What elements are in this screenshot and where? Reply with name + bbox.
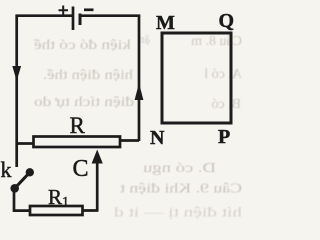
svg-text:Câu 8. m: Câu 8. m	[191, 34, 242, 49]
svg-text:kiện đó có thể: kiện đó có thể	[33, 38, 131, 53]
slider arrowhead	[92, 150, 103, 164]
wire from R1 left to switch	[14, 188, 31, 211]
battery plus sign	[59, 6, 69, 16]
rectangle frame MNPQ	[162, 33, 231, 123]
resistor R1 box	[30, 206, 83, 215]
svg-text:Q: Q	[219, 10, 235, 32]
svg-text:hiện điện thể.: hiện điện thể.	[43, 68, 133, 83]
wire from slider down to R1 right end	[82, 209, 98, 212]
svg-text:R: R	[48, 185, 62, 209]
svg-text:B. có: B. có	[211, 97, 241, 112]
switch k: arm bar	[15, 172, 30, 188]
svg-text:hít điện tị — it d: hít điện tị — it d	[114, 206, 242, 221]
battery negative plate (short)	[79, 14, 82, 26]
svg-text:ận: ận	[139, 32, 150, 46]
switch k: pivot dot	[10, 184, 19, 193]
svg-text:A. có l: A. có l	[204, 67, 242, 82]
svg-text:P: P	[218, 126, 230, 148]
switch k: open contact dot	[26, 168, 34, 176]
battery positive plate (long)	[72, 7, 75, 31]
svg-text:điện tích tự do: điện tích tự do	[34, 95, 134, 110]
slider wire C (vertical with up arrow to R)	[96, 162, 99, 211]
rheostat R box	[34, 137, 121, 148]
svg-text:C: C	[73, 156, 89, 182]
svg-text:k: k	[1, 157, 12, 182]
current arrow (down) on left wire	[12, 66, 21, 81]
svg-text:M: M	[156, 12, 175, 34]
battery minus sign	[84, 8, 94, 11]
wire from R to right vertical	[120, 139, 139, 142]
svg-text:D. có ngu: D. có ngu	[143, 161, 216, 176]
wire top-right and right vertical	[80, 16, 139, 141]
svg-text:R: R	[70, 113, 86, 138]
svg-text:Câu 9. Khi điện t: Câu 9. Khi điện t	[120, 182, 242, 197]
svg-text:1: 1	[62, 195, 69, 210]
wire top-left and left vertical	[17, 16, 72, 167]
current arrow (up) on right wire	[135, 83, 144, 100]
wire from left vertical to rheostat R	[17, 142, 34, 145]
svg-text:N: N	[150, 127, 165, 149]
